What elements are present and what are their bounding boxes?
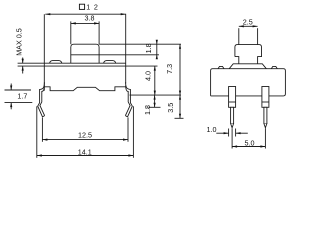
dim MAX0.5: top arrow shaft [22, 58, 24, 64]
svg-text:MAX 0.5: MAX 0.5 [14, 28, 23, 56]
front view: right clip inner edge [125, 86, 130, 116]
arrowhead 5.0 left [232, 145, 237, 147]
side view: right pin tip [264, 124, 267, 128]
dim 3.8: dimension line [71, 22, 99, 24]
dim 1.0: left dimension line segment [216, 132, 228, 134]
front view: left clip outer edge [38, 82, 45, 117]
front view: left clip tip [43, 116, 45, 117]
dim 14.1: left extension line [36, 106, 38, 158]
extension line: seating plane [130, 94, 182, 96]
side view: right top bump [271, 66, 277, 68]
arrowhead 5.0 right [260, 145, 265, 147]
arrowhead 2.5 left [239, 25, 244, 27]
dim 3.5: dimension line [179, 95, 181, 118]
dim 2.5: left extension line [238, 28, 240, 44]
front view: bottom bracket profile [44, 87, 125, 91]
dim 3.8: left extension line [70, 21, 72, 44]
dim 5.0: left extension line [231, 128, 233, 148]
svg-text:1.7: 1.7 [17, 91, 27, 100]
arrowhead MAX0.5 down [22, 59, 24, 64]
arrowhead 1.0 right-pointing [224, 132, 229, 134]
dim 7.3: dimension line [179, 44, 181, 95]
front view: left clip inner edge [40, 86, 45, 116]
side view: left pin narrow part [231, 107, 234, 123]
dim 5.0: right extension line [264, 128, 266, 148]
arrowhead 7.3 down [179, 91, 181, 96]
side view: right pin crimp tick [262, 101, 269, 103]
dim 2.5: right extension line [257, 28, 259, 44]
arrowhead 1.8top down [156, 40, 158, 45]
front view: right cover dome bump [104, 61, 116, 64]
front view: left cover dome bump [50, 61, 62, 64]
dim 14.1: right extension line [132, 106, 134, 158]
extension line: pin shoulder for lower 1.8 dim [149, 106, 161, 108]
arrowhead 14.1 right [128, 154, 133, 156]
dim 1.0: left extension line [228, 129, 230, 137]
dim 1.7: top arrow shaft [10, 84, 12, 91]
extension line: pin tip for 3.5 dim [175, 117, 184, 119]
dim 14.1: dimension line [37, 155, 134, 157]
svg-text:14.1: 14.1 [78, 147, 92, 156]
svg-text:12.5: 12.5 [78, 130, 92, 139]
side view: left pin tip [231, 124, 234, 128]
arrowhead 3.8 right [94, 22, 99, 24]
svg-text:5.0: 5.0 [245, 138, 255, 147]
dim sq12: dimension line [45, 13, 125, 15]
front view: right clip tip [125, 116, 127, 117]
dim 1.0: right extension line [235, 129, 237, 137]
dim 4.0: dimension line [154, 66, 156, 95]
side view: right pin shoulder [262, 87, 269, 108]
side view: left pin crimp tick [229, 101, 236, 103]
side view: body outline [211, 69, 286, 96]
arrowhead 3.5 down [179, 114, 181, 119]
dim 12.5: right extension line [127, 117, 129, 141]
arrowhead 1.8lower down [154, 103, 156, 108]
label sq12 square symbol [79, 4, 84, 9]
arrowhead 7.3 up [179, 44, 181, 49]
extension line: stem top to 7.3 dim [99, 43, 181, 45]
arrowhead 12.5 right [123, 139, 128, 141]
dim 1.8 top: dimension line [156, 41, 158, 60]
svg-text:1.0: 1.0 [207, 125, 217, 134]
svg-text:1 2: 1 2 [86, 3, 98, 12]
arrowhead 1.7 up [10, 103, 12, 108]
dim 12.5: dimension line [42, 139, 128, 141]
dim MAX0.5: bottom arrow shaft [22, 66, 24, 73]
side view: cover plateau [229, 64, 266, 69]
dim 1.7: bottom extension line [5, 102, 33, 104]
arrowhead 1.8lower up [154, 95, 156, 100]
front view: body right edge (also sq-12 extension line) [125, 14, 127, 84]
front view: body left edge (also sq-12 extension line) [43, 14, 45, 91]
side view: right pin narrow part [264, 107, 267, 123]
arrowhead 2.5 right [253, 25, 258, 27]
svg-text:1.8: 1.8 [144, 43, 153, 53]
side view: left pin shoulder [229, 87, 236, 108]
side view: left top bump [218, 66, 224, 68]
arrowhead MAX0.5 up [22, 66, 24, 71]
front view: stem outline [71, 44, 99, 63]
front view: right clip outer edge [126, 82, 133, 117]
front view: cover top line [18, 62, 126, 64]
dim 1.8 lower: dimension line [154, 95, 156, 107]
dim 3.8: right extension line [98, 21, 100, 44]
arrowhead 3.8 left [71, 22, 76, 24]
arrowhead 14.1 left [37, 154, 42, 156]
svg-text:3.8: 3.8 [85, 13, 95, 22]
arrowhead 1.7 down [10, 86, 12, 91]
svg-text:3.5: 3.5 [166, 103, 175, 113]
svg-text:2.5: 2.5 [243, 17, 253, 26]
arrowhead 4.0 down [154, 91, 156, 96]
dim 1.7: top extension line [5, 89, 32, 91]
dim 2.5: dimension line [239, 25, 258, 27]
svg-text:1.8: 1.8 [143, 105, 152, 115]
arrowhead 3.5 up [179, 95, 181, 100]
arrowhead sq12 left [45, 13, 50, 15]
dim 1.7: bottom arrow shaft [10, 103, 12, 110]
svg-text:7.3: 7.3 [165, 64, 174, 74]
arrowhead 1.0 left-pointing [236, 132, 241, 134]
front view: stem step line [71, 54, 99, 56]
dim 12.5: left extension line [41, 117, 43, 141]
svg-text:4.0: 4.0 [143, 71, 152, 81]
arrowhead sq12 right [121, 13, 126, 15]
arrowhead 4.0 up [154, 66, 156, 71]
dim 1.0: right dimension line segment [236, 132, 248, 134]
side view: stem flange outline [235, 45, 262, 64]
dim 5.0: dimension line [232, 146, 265, 148]
arrowhead 12.5 left [42, 139, 47, 141]
arrowhead 1.8top up [156, 55, 158, 60]
extension line: stem step to 1.8 dim [99, 54, 159, 56]
front view: cover bottom line [18, 65, 158, 67]
